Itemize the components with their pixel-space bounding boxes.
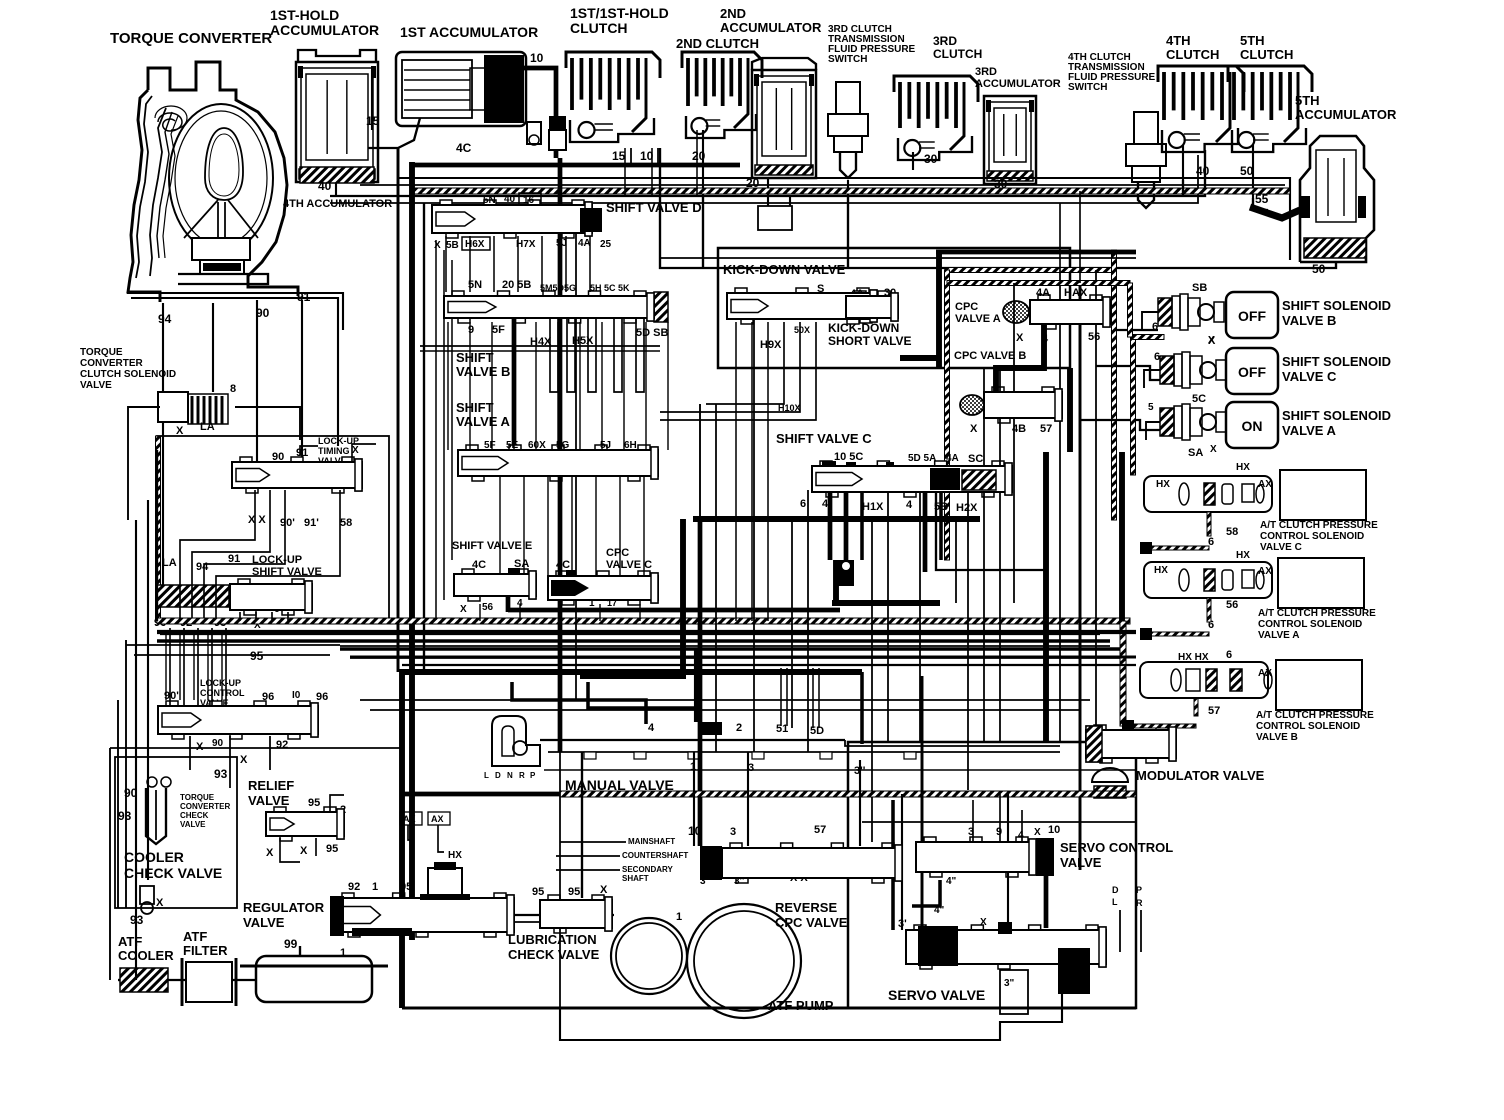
svg-text:1ST/1ST-HOLD: 1ST/1ST-HOLD [570, 5, 669, 21]
wire kick-down drops [735, 322, 737, 621]
svg-text:VALVE: VALVE [248, 793, 290, 808]
wire 10 thick from 1st accumulator [524, 68, 556, 158]
svg-text:REVERSE: REVERSE [775, 900, 837, 915]
servo control valve [916, 837, 1054, 877]
svg-text:5TH: 5TH [1240, 33, 1265, 48]
svg-text:CLUTCH: CLUTCH [1240, 47, 1293, 62]
manual valve spool line [540, 739, 845, 741]
svg-text:SC: SC [968, 453, 983, 465]
svg-text:5D: 5D [810, 725, 824, 737]
svg-text:CONTROL SOLENOID: CONTROL SOLENOID [1256, 721, 1360, 732]
svg-text:X: X [1016, 332, 1024, 344]
wire tc solenoid joins [128, 407, 160, 520]
svg-text:R: R [1136, 898, 1143, 908]
wire ropes to at modules [1207, 512, 1211, 536]
svg-text:CPC VALVE: CPC VALVE [775, 915, 848, 930]
at clutch module B [1140, 662, 1268, 698]
wire verticals center mesh [447, 322, 449, 450]
svg-text:57: 57 [1040, 423, 1052, 435]
wire tc drop lines [256, 300, 258, 462]
5th clutch [1228, 66, 1312, 92]
svg-text:X: X [352, 445, 359, 456]
svg-text:2ND: 2ND [720, 6, 746, 21]
wire pump bottom to frame [559, 752, 561, 1008]
svg-text:3: 3 [730, 826, 736, 838]
svg-text:3": 3" [1004, 978, 1015, 989]
svg-text:92: 92 [276, 739, 288, 751]
svg-text:4C: 4C [456, 141, 472, 155]
svg-text:X: X [196, 741, 204, 753]
svg-text:TIMING: TIMING [318, 446, 350, 456]
2nd clutch [682, 52, 762, 78]
servo valve [906, 922, 1106, 994]
wire servo drop to 3'' box [560, 994, 1062, 1040]
svg-text:MODULATOR VALVE: MODULATOR VALVE [1136, 768, 1265, 783]
wire center long verticals [558, 158, 563, 752]
svg-text:56: 56 [1226, 599, 1238, 611]
wire thick y676 [580, 673, 686, 679]
svg-text:COOLER: COOLER [124, 849, 184, 865]
fittings at rope junctions [1140, 542, 1152, 554]
svg-text:93: 93 [118, 809, 132, 823]
svg-text:5D SB: 5D SB [636, 327, 668, 339]
svg-text:CHECK: CHECK [180, 811, 209, 820]
wire thick mid y519 [693, 516, 980, 522]
wire left thick vertical main x412 [409, 162, 415, 940]
wire mid horizontals [160, 633, 1100, 635]
servo 3'' port box [1000, 970, 1028, 1014]
svg-text:4: 4 [906, 499, 913, 511]
wire left horizontals [126, 644, 340, 646]
wire servo control risers [972, 800, 974, 842]
svg-text:VALVE B: VALVE B [1256, 732, 1298, 743]
shift valve D [432, 205, 592, 233]
svg-text:3'': 3'' [700, 876, 710, 887]
svg-text:H6X: H6X [465, 239, 485, 250]
wire pair below valve B [420, 345, 660, 347]
svg-text:VALVE A: VALVE A [1258, 630, 1299, 641]
svg-text:5H 5C 5K: 5H 5C 5K [590, 283, 630, 293]
lock-up control valve spool [158, 706, 318, 734]
shift solenoid module B [1158, 298, 1172, 326]
wire control valve bottom drops [189, 736, 191, 770]
svg-text:SHAFT: SHAFT [622, 874, 649, 883]
svg-text:1: 1 [676, 911, 682, 923]
on box A [1226, 402, 1278, 448]
cpc valve B [960, 395, 984, 415]
svg-text:CLUTCH: CLUTCH [933, 47, 982, 61]
svg-text:X: X [970, 423, 978, 435]
wire thick drop below valve B [512, 318, 517, 452]
svg-text:ACCUMULATOR: ACCUMULATOR [720, 20, 822, 35]
svg-text:HX HX: HX HX [1178, 652, 1209, 663]
1st accumulator [396, 52, 526, 126]
svg-text:KICK-DOWN VALVE: KICK-DOWN VALVE [723, 262, 846, 277]
svg-text:6: 6 [1226, 649, 1232, 661]
reverse cpc valve [700, 843, 902, 883]
svg-text:VALVE C: VALVE C [1282, 369, 1337, 384]
svg-text:LA: LA [162, 557, 177, 569]
svg-text:92: 92 [348, 881, 360, 893]
svg-text:REGULATOR: REGULATOR [243, 900, 325, 915]
wire thick drop 4 to bus [506, 596, 511, 612]
wire regulator to pump [514, 914, 614, 916]
1st-hold accumulator [296, 50, 378, 183]
wire mid horizontal bus set [157, 630, 1136, 634]
cooler check region box [115, 757, 237, 908]
svg-text:L D N R: L D N R [484, 771, 527, 780]
svg-text:4A: 4A [578, 238, 591, 249]
1st/1st-hold clutch [566, 52, 660, 78]
wire bottom frame [402, 1007, 1136, 1010]
svg-text:OFF: OFF [1238, 364, 1266, 380]
svg-text:10 5C: 10 5C [834, 451, 863, 463]
svg-text:TORQUE: TORQUE [80, 347, 123, 358]
relief valve spool [266, 812, 344, 836]
wire drops below shift valve C thick [828, 492, 833, 560]
svg-text:CONVERTER: CONVERTER [80, 358, 144, 369]
svg-text:56: 56 [482, 602, 494, 613]
cpc valve A [1003, 301, 1029, 323]
wire clutch doubles [624, 148, 626, 196]
svg-text:KICK-DOWN: KICK-DOWN [828, 321, 899, 335]
svg-text:COOLER: COOLER [118, 948, 174, 963]
svg-text:X: X [434, 240, 441, 251]
wire left vertical x424 [423, 203, 425, 672]
atf pump large gear [687, 904, 801, 1018]
svg-text:93: 93 [214, 767, 228, 781]
svg-text:3RD: 3RD [975, 66, 997, 78]
svg-text:15: 15 [366, 114, 380, 128]
svg-text:MAINSHAFT: MAINSHAFT [628, 837, 675, 846]
wire solenoid module elbows [1142, 312, 1158, 330]
wires DLPR [1119, 910, 1121, 952]
wire valve C area diagonals [936, 490, 1046, 570]
svg-text:X X: X X [248, 514, 266, 526]
lock-up shift valve spool [230, 584, 312, 610]
wire left bus x157 [156, 450, 158, 621]
svg-text:VALVE A: VALVE A [1282, 423, 1337, 438]
wire thick x836 vertical [833, 560, 839, 604]
svg-text:SHIFT VALVE D: SHIFT VALVE D [606, 200, 702, 215]
wire right top verticals [1059, 203, 1061, 270]
shift valve A spool [458, 450, 658, 476]
fitting pair below 1st accumulator [527, 122, 541, 144]
svg-text:ACCUMULATOR: ACCUMULATOR [270, 22, 379, 38]
svg-text:SHIFT VALVE C: SHIFT VALVE C [776, 431, 872, 446]
at module B right box [1276, 660, 1362, 710]
svg-text:91: 91 [297, 290, 311, 304]
svg-text:94: 94 [158, 312, 172, 326]
manual valve detent [492, 716, 540, 766]
black node on drop [838, 560, 854, 586]
svg-text:VALVE A: VALVE A [456, 414, 511, 429]
svg-text:96: 96 [262, 691, 274, 703]
wire manual valve feed elbows [512, 682, 646, 724]
svg-text:SHIFT SOLENOID: SHIFT SOLENOID [1282, 298, 1391, 313]
svg-text:25: 25 [703, 724, 715, 735]
4th clutch [1158, 66, 1244, 92]
wire 2nd clutch drop to y268 [702, 196, 704, 268]
svg-text:40: 40 [504, 194, 516, 205]
at module A right box [1278, 558, 1364, 608]
wire rope main line top y190 [412, 188, 1290, 194]
kick-down spool [727, 293, 877, 319]
svg-text:LA: LA [200, 421, 215, 433]
svg-text:X: X [600, 884, 608, 896]
wire 4C elbow [368, 118, 420, 148]
svg-text:SB: SB [1192, 282, 1207, 294]
svg-text:6: 6 [800, 498, 806, 510]
svg-text:96: 96 [316, 691, 328, 703]
svg-text:LOCK-UP: LOCK-UP [200, 678, 241, 688]
svg-text:90': 90' [280, 517, 295, 529]
svg-text:SERVO CONTROL: SERVO CONTROL [1060, 840, 1173, 855]
svg-text:40: 40 [318, 179, 332, 193]
wire 2nd accumulator orifice [758, 206, 792, 230]
svg-text:ACCUMULATOR: ACCUMULATOR [1295, 107, 1397, 122]
svg-text:4TH: 4TH [1166, 33, 1191, 48]
wire lower-left mesh verticals [165, 630, 167, 700]
svg-text:5F: 5F [492, 324, 505, 336]
svg-text:TORQUE CONVERTER: TORQUE CONVERTER [110, 30, 272, 47]
svg-text:HAX: HAX [1064, 287, 1088, 299]
wire cooler-filter-pan [168, 979, 186, 981]
wire regulator bolt [428, 868, 462, 898]
off box B [1226, 292, 1278, 338]
svg-text:4: 4 [648, 722, 655, 734]
svg-text:P: P [1136, 885, 1142, 895]
svg-text:P: P [530, 771, 536, 780]
wire rope main line mid y620 [157, 618, 1130, 624]
wire verticals below valve E row [479, 604, 481, 621]
wire right horizontals to solenoids [1114, 329, 1158, 331]
svg-text:I0: I0 [292, 690, 301, 701]
svg-text:SHORT VALVE: SHORT VALVE [828, 334, 912, 348]
at module C right box [1280, 470, 1366, 520]
wire thick cpc A to B [996, 324, 1044, 392]
svg-text:AX: AX [1258, 566, 1272, 577]
svg-text:10: 10 [1048, 824, 1060, 836]
svg-text:SERVO VALVE: SERVO VALVE [888, 987, 985, 1003]
svg-text:CPC: CPC [955, 301, 978, 313]
svg-text:2ND CLUTCH: 2ND CLUTCH [676, 36, 759, 51]
svg-text:SHIFT: SHIFT [456, 400, 494, 415]
svg-text:15: 15 [612, 149, 626, 163]
svg-text:AX: AX [1258, 668, 1272, 679]
atf cooler [120, 968, 168, 992]
wire servo interior [862, 821, 1136, 823]
svg-text:ATF PUMP: ATF PUMP [768, 998, 834, 1013]
wire verticals below valve A [499, 476, 501, 578]
svg-text:CPC VALVE B: CPC VALVE B [954, 350, 1026, 362]
shift solenoid module A [1160, 408, 1174, 436]
svg-text:94: 94 [196, 561, 209, 573]
svg-text:VALVE B: VALVE B [1282, 313, 1336, 328]
svg-text:5: 5 [1148, 402, 1154, 413]
lubrication check valve [540, 900, 612, 928]
wire servo thick drops [912, 880, 940, 906]
wire trunk y185 [360, 184, 1285, 186]
svg-text:57: 57 [814, 824, 826, 836]
wire thick x683 [680, 519, 686, 676]
svg-text:ON: ON [1242, 418, 1263, 434]
svg-text:HX: HX [1156, 479, 1170, 490]
cpc valves rope frame [945, 268, 1114, 273]
wire bottom mid verticals [581, 752, 583, 898]
svg-text:CLUTCH: CLUTCH [1166, 47, 1219, 62]
wire lock-up timing valve elbows [180, 490, 255, 618]
svg-text:1ST ACCUMULATOR: 1ST ACCUMULATOR [400, 24, 538, 40]
svg-text:A/T CLUTCH PRESSURE: A/T CLUTCH PRESSURE [1256, 710, 1374, 721]
wire kickdown top pair [660, 257, 1136, 259]
svg-text:SWITCH: SWITCH [1068, 82, 1107, 93]
svg-text:LUBRICATION: LUBRICATION [508, 932, 597, 947]
svg-text:SECONDARY: SECONDARY [622, 865, 673, 874]
shift valve C spool [812, 466, 1012, 492]
svg-text:H4X: H4X [530, 336, 552, 348]
svg-text:TORQUE: TORQUE [180, 793, 215, 802]
svg-text:SWITCH: SWITCH [828, 54, 867, 65]
svg-text:6: 6 [1152, 321, 1158, 333]
svg-text:CPC: CPC [606, 547, 629, 559]
wire thick mid y603 [832, 600, 940, 606]
wire cpc box thick edges [936, 250, 942, 368]
at clutch module A [1144, 562, 1272, 598]
svg-text:AX: AX [431, 814, 444, 824]
wire switch down [847, 180, 849, 196]
svg-text:9: 9 [468, 324, 474, 336]
wire trunk 40 horizontal [330, 150, 1205, 196]
svg-text:CONVERTER: CONVERTER [180, 802, 230, 811]
5th accumulator [1300, 136, 1374, 262]
wire 4th clutch drop [1182, 180, 1184, 196]
svg-text:VALVE: VALVE [80, 380, 112, 391]
wire drops shift valve D to B [445, 236, 447, 292]
svg-text:8: 8 [230, 383, 236, 395]
svg-text:HX: HX [448, 850, 462, 861]
svg-text:SHIFT SOLENOID: SHIFT SOLENOID [1282, 354, 1391, 369]
svg-text:RELIEF: RELIEF [248, 778, 294, 793]
4th clutch transmission fluid pressure switch [1134, 112, 1158, 144]
wire 2nd accum down [768, 178, 790, 218]
svg-text:X: X [980, 917, 987, 928]
svg-text:AX: AX [1258, 479, 1272, 490]
svg-text:CHECK VALVE: CHECK VALVE [124, 865, 222, 881]
svg-text:CHECK VALVE: CHECK VALVE [508, 947, 600, 962]
svg-text:VALVE B: VALVE B [456, 364, 510, 379]
lock-up shift valve hatched block [157, 585, 229, 607]
svg-text:95: 95 [308, 797, 320, 809]
svg-text:VALVE C: VALVE C [1260, 542, 1302, 553]
svg-text:95: 95 [250, 649, 264, 663]
svg-text:SHIFT SOLENOID: SHIFT SOLENOID [1282, 408, 1391, 423]
svg-text:SHIFT: SHIFT [456, 350, 494, 365]
svg-text:H7X: H7X [516, 239, 536, 250]
svg-text:VALVE C: VALVE C [606, 559, 652, 571]
svg-text:A/T CLUTCH PRESSURE: A/T CLUTCH PRESSURE [1258, 608, 1376, 619]
svg-text:20 5B: 20 5B [502, 279, 531, 291]
svg-text:VALVE: VALVE [180, 820, 206, 829]
svg-text:VALVE: VALVE [243, 915, 285, 930]
svg-text:4": 4" [946, 876, 957, 887]
svg-text:X: X [460, 604, 467, 615]
3rd clutch transmission fluid pressure switch [836, 82, 860, 114]
svg-text:H1X: H1X [862, 501, 884, 513]
wire left vertical x398 [397, 148, 400, 672]
at clutch module C [1144, 476, 1272, 512]
svg-text:HX: HX [1154, 565, 1168, 576]
wire lock-up shift valve drops [239, 612, 241, 621]
svg-text:10: 10 [530, 51, 544, 65]
svg-text:ATF: ATF [118, 934, 142, 949]
oil pan [240, 946, 388, 1002]
svg-text:95: 95 [326, 843, 338, 855]
wires shaft arrows [560, 841, 626, 843]
wire 55 thick to 5th accumulator [1250, 207, 1300, 218]
valve C top port blobs [822, 461, 836, 468]
svg-text:4A: 4A [1036, 287, 1050, 299]
atf filter [186, 962, 232, 1002]
wire left bus verticals [109, 748, 111, 980]
2nd accumulator [752, 58, 816, 178]
svg-text:COUNTERSHAFT: COUNTERSHAFT [622, 851, 688, 860]
svg-text:CONTROL SOLENOID: CONTROL SOLENOID [1258, 619, 1362, 630]
wire 40 down [335, 183, 337, 196]
svg-text:HX: HX [1236, 462, 1250, 473]
shift valve E spool [454, 574, 536, 596]
lockup region box [157, 436, 389, 622]
cpc valve C spool [548, 576, 658, 600]
svg-text:30: 30 [924, 152, 938, 166]
svg-text:H9X: H9X [760, 339, 782, 351]
tc clutch solenoid valve [158, 392, 228, 424]
cooler check valve [140, 886, 154, 914]
svg-text:9: 9 [996, 826, 1002, 838]
svg-text:58: 58 [1226, 526, 1238, 538]
wire trunk y165 thick [412, 163, 740, 168]
wire U-tube drops below valve B [550, 318, 558, 392]
wire right-of-center verticals [919, 492, 921, 742]
wire 5th clutch 50 drop [1253, 198, 1268, 210]
lock-up timing valve spool [232, 462, 362, 488]
svg-text:FILTER: FILTER [183, 943, 228, 958]
svg-text:SA: SA [1188, 447, 1203, 459]
wire kick-down elbow drops [706, 322, 784, 404]
svg-text:4TH ACCUMULATOR: 4TH ACCUMULATOR [283, 198, 392, 210]
3rd clutch [894, 76, 978, 102]
3rd accumulator [984, 96, 1036, 184]
svg-text:L: L [1112, 897, 1118, 907]
svg-text:A/T CLUTCH PRESSURE: A/T CLUTCH PRESSURE [1260, 520, 1378, 531]
svg-text:ATF: ATF [183, 929, 207, 944]
wire right verticals [1043, 452, 1049, 742]
svg-text:25: 25 [600, 239, 612, 250]
svg-text:1: 1 [372, 881, 378, 893]
svg-text:91: 91 [296, 447, 308, 459]
labels AX AX HX [400, 812, 422, 825]
svg-text:91': 91' [304, 517, 319, 529]
off box C [1226, 348, 1278, 394]
svg-text:CLUTCH: CLUTCH [570, 20, 628, 36]
svg-text:56: 56 [1088, 331, 1100, 343]
svg-text:X: X [266, 847, 274, 859]
svg-text:VALVE A: VALVE A [955, 313, 1001, 325]
manual valve frame [402, 672, 862, 1008]
svg-text:50X: 50X [794, 325, 810, 335]
svg-text:4A: 4A [946, 453, 959, 464]
regulator valve [330, 893, 514, 937]
